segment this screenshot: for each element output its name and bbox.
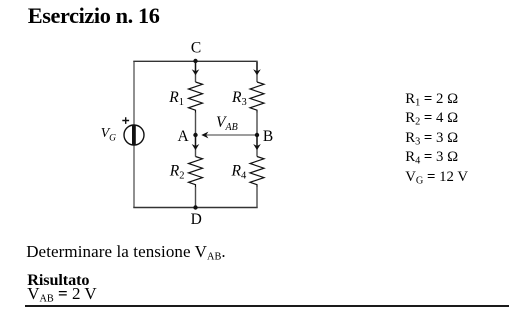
wire bottom horizontal — [133, 207, 257, 209]
current arrow above R3 — [256, 62, 258, 73]
wire left vertical (VG branch) — [133, 62, 135, 208]
title — [28, 3, 160, 29]
question text — [26, 243, 226, 260]
current arrow above R4 — [256, 137, 258, 147]
node B — [255, 133, 259, 137]
svg-text:R2: R2 — [169, 163, 185, 182]
resistor R3 — [250, 82, 264, 113]
value label VG = 12 V — [405, 170, 468, 185]
wire top horizontal — [133, 60, 257, 62]
VAB arrow from B to A — [206, 134, 255, 136]
node A — [193, 133, 197, 137]
current arrow above R1 — [195, 62, 197, 73]
svg-text:VAB: VAB — [216, 114, 238, 133]
resistor R1 — [189, 82, 203, 113]
svg-text:R3: R3 — [231, 89, 247, 108]
svg-text:R4: R4 — [231, 163, 247, 182]
current arrow above R2 — [195, 137, 197, 147]
voltage source VG — [124, 125, 144, 145]
svg-text:C: C — [191, 40, 201, 57]
wire right branch (C-R3-B-R4-D) — [256, 61, 258, 207]
result heading — [27, 272, 89, 288]
svg-text:B: B — [263, 128, 273, 145]
value label R2 = 4 ohm — [405, 111, 458, 126]
plus sign of VG — [122, 117, 129, 124]
node C — [193, 59, 197, 63]
value label R1 = 2 ohm — [405, 92, 458, 107]
wire middle branch (C-R1-A-R2-D) — [195, 61, 197, 208]
result value VAB = 2 V — [27, 285, 97, 302]
value label R4 = 3 ohm — [405, 150, 458, 165]
svg-text:VG: VG — [101, 125, 116, 143]
node D — [193, 205, 197, 209]
resistor R2 — [189, 157, 203, 188]
svg-text:A: A — [177, 128, 189, 145]
value label R3 = 3 ohm — [405, 131, 458, 146]
bottom rule — [25, 305, 510, 307]
svg-text:R1: R1 — [168, 89, 184, 108]
svg-text:D: D — [191, 211, 202, 228]
resistor R4 — [250, 157, 264, 188]
